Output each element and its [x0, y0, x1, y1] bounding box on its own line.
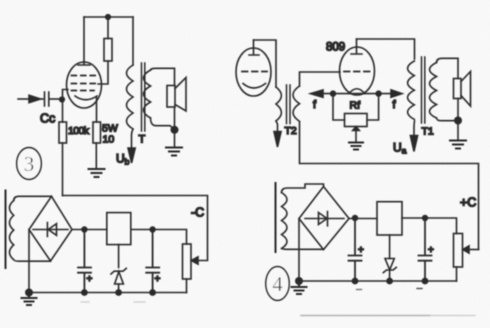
- ground speaker2: [450, 141, 466, 149]
- wire winding bottom to bridge PSU1: [14, 260, 51, 262]
- tube V3 809 envelope: [340, 47, 375, 95]
- transformer T core: [142, 63, 145, 131]
- transformer T1 core: [422, 57, 425, 123]
- regulator box PSU2: [377, 202, 402, 235]
- wire left node to Rf: [333, 94, 345, 120]
- node cap2 PSU2: [422, 215, 428, 221]
- tube V2 grid: [242, 71, 267, 73]
- label f left: [313, 99, 317, 111]
- label 10: [103, 134, 115, 146]
- capacitor Cc: [45, 92, 49, 106]
- svg-text:+: +: [155, 274, 161, 285]
- wire secondary bottom: [151, 118, 175, 130]
- svg-text:10: 10: [103, 134, 115, 146]
- tube V1 screen grid row: [72, 61, 109, 84]
- transformer T2 core: [287, 85, 291, 124]
- arrow filament right: [391, 90, 402, 97]
- transformer T1 secondary: [430, 63, 437, 119]
- node cap1 PSU2: [352, 215, 358, 221]
- bridge rectifier PSU2: [299, 187, 349, 250]
- ground speaker: [166, 148, 182, 156]
- label minus PSU2: [357, 289, 423, 290]
- wire winding top to bridge PSU2: [282, 184, 324, 193]
- label T: [139, 134, 146, 146]
- node speaker junction: [171, 126, 179, 134]
- arrow Ua supply: [410, 136, 417, 152]
- resistor R3 cathode 5W 10: [93, 122, 101, 143]
- wire input line: [18, 98, 31, 100]
- wire T2 primary bottom: [276, 121, 278, 132]
- ground cathode: [89, 169, 105, 177]
- wire bridge to box PSU1: [72, 229, 107, 231]
- node speaker2 junction: [454, 117, 462, 125]
- node C2 bottom: [149, 289, 156, 296]
- transformer winding PSU2: [282, 193, 288, 249]
- circled number 4: [266, 267, 290, 301]
- regulator box PSU1: [107, 213, 131, 245]
- label Cc: [40, 112, 55, 126]
- wire winding top to bridge PSU1: [14, 196, 52, 200]
- potentiometer +C: [454, 234, 463, 268]
- wire bottom rail PSU1: [29, 292, 187, 294]
- label f right: [393, 99, 397, 111]
- wire V2 plate to T2 primary: [254, 40, 277, 87]
- node D1 bottom: [115, 289, 122, 296]
- resistor Rf hum pot: [345, 114, 368, 127]
- wire junction2 to ground: [457, 121, 459, 141]
- potentiometer -C: [183, 244, 192, 279]
- svg-text:Cc: Cc: [40, 112, 55, 126]
- wire grid lead: [63, 90, 69, 100]
- wire speaker2 down: [457, 99, 459, 121]
- svg-text:100k: 100k: [68, 125, 90, 137]
- wire V3 plate to T1: [357, 39, 415, 59]
- svg-text:+: +: [358, 245, 364, 256]
- label 809: [326, 42, 345, 54]
- circled number 3: [17, 148, 42, 180]
- node cap1 PSU1: [81, 226, 87, 232]
- ground PSU2: [292, 281, 307, 294]
- label C2 plus: [155, 274, 161, 285]
- label Ua: [393, 141, 407, 156]
- node filament left: [330, 90, 336, 96]
- tube V1 grid row 3: [72, 90, 95, 92]
- svg-text:+: +: [87, 274, 93, 285]
- bridge diode PSU2: [305, 212, 344, 226]
- label Ub: [116, 152, 130, 167]
- node filament right: [375, 90, 381, 96]
- wire node to 100k: [62, 100, 64, 123]
- tube V3 plate: [351, 39, 362, 54]
- ground Rf wiper: [349, 143, 363, 150]
- wire -C rail: [63, 196, 208, 261]
- arrow +C wiper: [463, 246, 479, 253]
- wire T2 secondary top to 809 grid: [300, 72, 341, 86]
- capacitor C3 PSU2: [349, 218, 362, 281]
- wire box to pot PSU2: [402, 218, 457, 234]
- resistor R2 screen dropper: [104, 17, 112, 61]
- tube V3 cathode: [349, 89, 365, 94]
- svg-text:3: 3: [24, 152, 35, 176]
- svg-text:T1: T1: [422, 126, 434, 138]
- tube V1 grid row 1: [72, 75, 99, 77]
- label T1: [422, 126, 434, 138]
- transformer T primary: [127, 65, 134, 129]
- resistor R1 100k: [59, 122, 67, 143]
- svg-text:Rf: Rf: [350, 100, 361, 112]
- wire pot bottom PSU1: [186, 279, 188, 293]
- input arrow: [29, 95, 43, 102]
- zener D1 PSU1: [111, 245, 126, 293]
- wire cap to grid node: [49, 98, 62, 100]
- wire right node to Rf: [367, 94, 379, 120]
- wire T1 secondary top to speaker: [437, 58, 459, 78]
- wire bridge left to ground PSU1: [28, 230, 30, 293]
- transformer T2 primary: [276, 87, 281, 121]
- node grid junction: [59, 96, 65, 102]
- zener D2 PSU2: [383, 235, 396, 281]
- node C3 bottom: [352, 278, 359, 285]
- transformer core PSU1: [5, 191, 7, 269]
- tube V2 driver envelope: [236, 48, 271, 96]
- wire cathode resistor to ground: [95, 143, 97, 169]
- tube V3 grid: [344, 71, 370, 73]
- label C4 plus: [428, 245, 434, 256]
- wire rail down to T primary: [132, 17, 134, 65]
- label Rf: [350, 100, 361, 112]
- label 5W: [102, 123, 118, 135]
- node top rail junction: [105, 14, 111, 20]
- tube V2 cathode: [243, 84, 266, 89]
- wire bridge to box PSU2: [349, 218, 377, 220]
- wire filament line: [323, 93, 391, 95]
- bridge diode PSU1: [33, 223, 68, 237]
- wire bottom rail PSU2: [299, 280, 457, 282]
- wiper arrow Rf: [353, 127, 360, 141]
- svg-text:809: 809: [326, 42, 345, 54]
- wire T1 primary bottom to Ua arrow: [413, 121, 416, 136]
- label +C: [460, 196, 476, 210]
- transformer T2 secondary: [293, 86, 300, 121]
- wire 100k to -C rail: [62, 143, 64, 196]
- speaker LS1: [167, 78, 186, 112]
- svg-text:+C: +C: [460, 196, 476, 210]
- label T2: [285, 125, 297, 137]
- tube V2 plate: [249, 40, 259, 55]
- label -C: [191, 206, 204, 220]
- node ground PSU1: [25, 289, 33, 297]
- node D2 bottom: [386, 278, 393, 285]
- transformer core PSU2: [275, 183, 277, 252]
- faint smudges PSU1: [81, 301, 145, 303]
- arrow filament left: [311, 90, 324, 97]
- svg-text:4: 4: [272, 272, 283, 296]
- label C3 plus: [358, 245, 364, 256]
- node C4 bottom: [422, 278, 429, 285]
- transformer T secondary: [143, 70, 150, 118]
- node cap2 PSU1: [149, 226, 155, 232]
- arrow -C wiper: [191, 257, 198, 264]
- node C1 bottom: [81, 289, 88, 296]
- tube V1 cathode: [75, 96, 97, 122]
- scan artifact line: [301, 315, 475, 317]
- svg-text:-C: -C: [191, 206, 204, 220]
- wire T1 secondary bottom: [437, 118, 459, 121]
- ground PSU1: [22, 293, 37, 306]
- wire pot bottom PSU2: [456, 267, 458, 281]
- wire secondary top to speaker: [151, 68, 175, 85]
- svg-text:+: +: [428, 245, 434, 256]
- wire bridge left to ground PSU2: [298, 219, 300, 282]
- tube V1 plate: [78, 17, 90, 65]
- capacitor C2 PSU1: [146, 230, 159, 293]
- label C1 plus: [87, 274, 93, 285]
- bridge rectifier PSU1: [29, 196, 72, 261]
- transformer T1 primary: [408, 61, 415, 119]
- arrow T2 down: [274, 132, 281, 148]
- label 100k: [68, 125, 90, 137]
- wire primary bottom to Ub arrow: [132, 129, 134, 148]
- capacitor C4 PSU2: [419, 218, 432, 281]
- wire +C feed line: [300, 122, 479, 250]
- transformer winding PSU1: [9, 201, 13, 260]
- capacitor C1 PSU1: [78, 230, 91, 293]
- arrow Ub supply: [128, 148, 135, 163]
- wire junction to ground: [174, 130, 176, 148]
- wire speaker to junction: [174, 107, 176, 130]
- tube V1 envelope: [67, 62, 102, 108]
- wire top rail: [84, 16, 133, 18]
- wire box to pot PSU1: [131, 230, 187, 245]
- wire winding bottom to bridge PSU2: [282, 248, 324, 251]
- speaker LS2: [454, 72, 471, 107]
- svg-text:T: T: [139, 134, 146, 146]
- node ground PSU2: [295, 277, 303, 285]
- svg-text:T2: T2: [285, 125, 297, 137]
